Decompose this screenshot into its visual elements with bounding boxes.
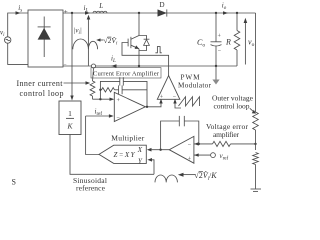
svg-text:Y: Y: [138, 158, 143, 166]
node divider tap: [254, 143, 256, 145]
arrow iL: [85, 11, 90, 15]
capacitor VEA feedback: [161, 116, 199, 150]
capacitor CEA feedback top: [120, 77, 147, 107]
svg-text:Z=XY: Z=XY: [114, 151, 136, 159]
bridge rectifier diode: [38, 17, 51, 58]
capacitor CEA feedback series: [115, 85, 148, 94]
resistor divider lower: [253, 153, 259, 165]
wire multiplier Z to iref: [86, 116, 99, 155]
svg-text:Inner current: Inner current: [17, 79, 64, 88]
ground: [251, 189, 262, 191]
wire bottom rail left: [63, 65, 92, 67]
label Inner current control loop: [17, 79, 64, 98]
label box Current Error Amplifier: [91, 68, 161, 78]
diode D: [158, 9, 167, 16]
ac source Vi: [5, 37, 11, 43]
svg-text:+: +: [188, 156, 192, 162]
multiplier Z=XY: [99, 145, 146, 163]
wire vo sense right edge: [255, 13, 257, 112]
svg-text:is: is: [18, 4, 22, 14]
arrow vo: [244, 18, 248, 65]
capacitor Co: [211, 13, 222, 66]
svg-text:Modulator: Modulator: [178, 82, 212, 90]
overbar sqrt top: [107, 36, 111, 38]
wire feedback stub: [99, 90, 101, 99]
svg-text:+: +: [64, 8, 68, 16]
svg-text:iref: iref: [95, 108, 103, 118]
wire resistor to divider tap: [231, 143, 256, 145]
wire iref to CEA - input: [86, 114, 114, 117]
svg-text:L: L: [98, 2, 103, 10]
node VEA fb tap: [198, 143, 200, 145]
svg-text:+: +: [117, 98, 121, 104]
wire divider middle: [255, 130, 257, 150]
node R top: [236, 12, 238, 14]
svg-text:−: −: [188, 142, 192, 148]
svg-text:1: 1: [68, 109, 72, 118]
wire 1/K to reference line: [70, 135, 154, 175]
node Co top: [215, 12, 217, 14]
svg-text:io: io: [222, 2, 227, 12]
waveform reference humps: [155, 175, 177, 182]
svg-text:D: D: [160, 1, 165, 9]
resistor current sense: [90, 68, 95, 99]
wire VEA - input: [194, 142, 213, 145]
wire sawtooth to PWM: [173, 99, 181, 108]
svg-text:√2V̂i/K: √2V̂i/K: [194, 170, 217, 182]
op-amp voltage error amplifier: [169, 136, 194, 163]
resistor VEA input: [213, 141, 231, 146]
wire CEA feedback top branch: [100, 81, 119, 89]
svg-text:Current Error Amplifier: Current Error Amplifier: [93, 71, 160, 78]
wire |vi| sense to 1/K: [70, 13, 73, 101]
svg-text:−: −: [63, 62, 66, 68]
overbar sqrt bottom: [199, 171, 203, 173]
svg-text:K: K: [66, 122, 73, 131]
comparator PWM: [157, 76, 180, 100]
svg-text:vi: vi: [0, 29, 5, 39]
node |vi| tap: [71, 12, 73, 14]
bridge rectifier box: [28, 10, 63, 67]
svg-text:vo: vo: [248, 38, 255, 49]
svg-text:−: −: [218, 49, 222, 55]
node CEA feedback: [99, 89, 101, 91]
node VEA feedback join: [159, 149, 161, 151]
svg-text:iL: iL: [111, 55, 116, 65]
node Co bottom: [215, 65, 217, 67]
node CEA feedback tap: [99, 98, 101, 100]
wire source-bottom to rectifier: [8, 43, 28, 64]
wire gate drive: [122, 43, 169, 77]
wire VEA + input to vref: [194, 153, 211, 156]
arrow outer loop callout: [250, 108, 256, 113]
arrow sqrt2Vi/K: [178, 173, 196, 177]
wire source-top to rectifier: [8, 13, 28, 37]
svg-text:reference: reference: [76, 184, 106, 193]
wire CEA output to PWM: [145, 99, 162, 107]
wire to CEA + input: [93, 98, 115, 101]
resistor divider upper: [253, 112, 259, 130]
waveform gate pulse: [155, 47, 161, 53]
arrow is: [16, 11, 21, 15]
waveform |vi| humps: [73, 39, 98, 49]
block 1/K: [59, 101, 81, 135]
resistor R: [234, 13, 240, 66]
label Outer voltage control loop: [212, 93, 254, 110]
wire VEA output to X: [151, 149, 169, 151]
arrow into X: [147, 148, 152, 152]
waveform sawtooth: [179, 97, 200, 106]
node CEA output: [146, 106, 148, 108]
svg-text:R: R: [225, 38, 231, 47]
svg-text:+: +: [218, 34, 222, 40]
arrow |vi| peak: [87, 15, 91, 66]
svg-text:control loop: control loop: [214, 102, 250, 111]
wire bottom rail right: [96, 65, 238, 67]
wire divider to ground: [255, 165, 257, 189]
current sensor: [92, 64, 96, 68]
svg-text:vref: vref: [220, 152, 229, 162]
node switch drain: [138, 12, 140, 14]
arrow sqrt2Vi: [96, 38, 103, 41]
arrow into Y: [147, 158, 152, 162]
svg-text:amplifier: amplifier: [213, 130, 240, 139]
transistor switch: [128, 13, 139, 66]
arrow io: [223, 11, 228, 15]
diode switch freewheel: [139, 36, 149, 51]
svg-text:+: +: [160, 94, 164, 100]
svg-text:Multiplier: Multiplier: [111, 134, 145, 143]
label Voltage error amplifier: [206, 122, 249, 139]
op-amp current error amplifier: [114, 92, 145, 121]
svg-text:√2V̂i: √2V̂i: [104, 35, 118, 47]
label Sinusoidal reference: [73, 176, 107, 193]
svg-text:|vi|: |vi|: [74, 27, 82, 37]
wire reference to Y: [152, 160, 155, 175]
node switch source on rail: [138, 65, 140, 67]
ground reference arrow: [212, 66, 219, 85]
svg-text:Co: Co: [197, 38, 205, 49]
arrow iL return: [111, 64, 117, 68]
wire top rail: [63, 12, 256, 14]
svg-text:PWM: PWM: [181, 74, 201, 82]
terminal vref: [211, 153, 216, 158]
label PWM Modulator: [178, 74, 212, 90]
arrow inner loop callout: [64, 81, 91, 84]
svg-text:control loop: control loop: [20, 89, 64, 98]
svg-text:X: X: [137, 146, 143, 154]
inductor L: [93, 11, 107, 13]
svg-text:S: S: [12, 178, 16, 187]
resistor CEA feedback: [102, 88, 115, 92]
